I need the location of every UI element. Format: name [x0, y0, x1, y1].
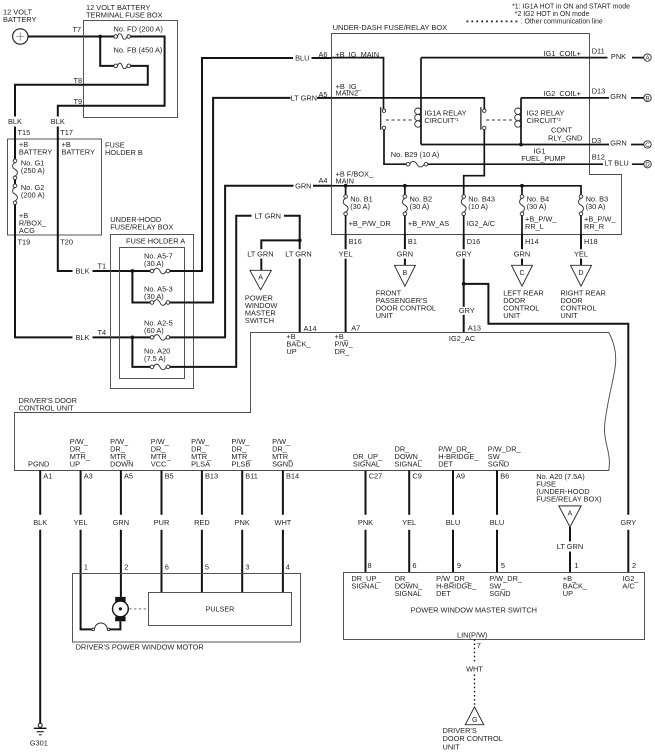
svg-text:A: A — [568, 511, 573, 518]
svg-text:C9: C9 — [412, 472, 421, 481]
fuse No.G2 (200A) — [13, 183, 45, 204]
wire branch to fuse FB — [100, 37, 114, 66]
svg-text:D11: D11 — [592, 46, 605, 55]
node LT GRN junction — [298, 239, 302, 243]
connector triangle C left rear door control unit — [503, 265, 544, 320]
wire IG2 switch output jog down to fuse B43 — [464, 130, 485, 195]
svg-text:LT GRN: LT GRN — [291, 94, 317, 103]
svg-text:PGND: PGND — [28, 459, 49, 468]
svg-text:+B_P/W_AS: +B_P/W_AS — [408, 219, 449, 228]
signal DR_UP_SIGNAL (pin8) — [351, 574, 381, 591]
note legend dotted other communication line — [467, 18, 603, 25]
svg-text:(7.5 A): (7.5 A) — [144, 354, 166, 363]
fuse holder A box — [120, 237, 186, 379]
node T1 junction — [131, 269, 135, 273]
node GRY junction — [462, 282, 466, 286]
fuse No.A2-5 (60A) — [144, 318, 173, 340]
wire fuse B2 to box bottom — [404, 216, 406, 234]
svg-text:T4: T4 — [98, 328, 107, 337]
svg-text:1: 1 — [84, 563, 88, 572]
svg-text:+B_IG_MAIN: +B_IG_MAIN — [335, 50, 379, 59]
wire B1 GRN down to triangle B — [404, 234, 406, 265]
svg-text:SIGNAL: SIGNAL — [395, 459, 422, 468]
svg-text:5: 5 — [501, 561, 505, 570]
node T4 junction — [131, 336, 135, 340]
fuse No.B3 (30A) — [579, 195, 609, 216]
svg-text:FUSE HOLDER A: FUSE HOLDER A — [126, 237, 185, 246]
fuse No.FB (450A) — [114, 45, 163, 68]
svg-text:8: 8 — [368, 561, 372, 570]
svg-text:7: 7 — [477, 641, 481, 650]
svg-text:YEL: YEL — [339, 250, 353, 259]
svg-text:D13: D13 — [592, 87, 606, 96]
svg-text:B16: B16 — [349, 237, 362, 246]
svg-text:HOLDER B: HOLDER B — [105, 148, 143, 157]
signal P/W_DR_MTR_PLSB — [231, 437, 252, 469]
svg-text:DOWN: DOWN — [110, 459, 133, 468]
svg-text:UNIT: UNIT — [376, 311, 394, 320]
svg-text:6: 6 — [412, 561, 416, 570]
node bus B4 — [520, 184, 524, 188]
svg-text:GRY: GRY — [620, 518, 636, 527]
motor M symbol — [113, 597, 129, 621]
svg-text:BATTERY: BATTERY — [3, 15, 36, 24]
svg-text:IG1_COIL+: IG1_COIL+ — [543, 49, 581, 58]
svg-text:B: B — [645, 95, 649, 102]
ground G301 — [30, 723, 48, 747]
wire B6 BLU down to switch pin5 — [496, 470, 498, 572]
wire bus stub to fuse B2 — [404, 186, 406, 195]
wire fuse A20 output up to LT GRN loop — [170, 216, 252, 367]
wire A9 BLU down to switch pin9 — [452, 470, 454, 572]
relay IG2 coil — [515, 108, 565, 127]
wire CONT RLY_GND row to D3 — [421, 144, 589, 146]
svg-text:GRY: GRY — [456, 250, 472, 259]
wire IG1A switch output down to fuse B29 — [384, 130, 406, 165]
svg-text:A3: A3 — [84, 472, 93, 481]
svg-text:GRN: GRN — [113, 518, 129, 527]
fuse No.B1 (30A) — [343, 195, 373, 216]
svg-text:SGND: SGND — [488, 459, 509, 468]
wire T19 down to T4 row — [15, 205, 73, 338]
svg-text:FUSE/RELAY BOX: FUSE/RELAY BOX — [110, 223, 173, 232]
svg-text:(30 A): (30 A) — [350, 202, 370, 211]
svg-text:BLK: BLK — [76, 333, 90, 342]
svg-text:A: A — [258, 275, 263, 282]
svg-text:RED: RED — [194, 518, 210, 527]
node T7 junction — [98, 35, 102, 39]
svg-text:(30 A): (30 A) — [527, 202, 547, 211]
under-dash fuse/relay box — [332, 23, 622, 235]
svg-text:DR_: DR_ — [335, 347, 351, 356]
svg-text:5: 5 — [205, 563, 209, 572]
svg-text:PNK: PNK — [611, 52, 626, 61]
wire GRY down to A13 — [463, 284, 465, 333]
fuse No.A5-7 (30A) — [144, 252, 173, 274]
svg-text:D: D — [645, 162, 650, 169]
svg-text:T7: T7 — [73, 25, 82, 34]
connector triangle B front passenger's door control unit — [376, 265, 436, 320]
svg-text:9: 9 — [457, 561, 461, 570]
wire motor bottom terminal — [110, 622, 121, 630]
wire A1 BLK down to ground — [39, 470, 41, 723]
wire A4 +B F/BOX_MAIN bus — [332, 186, 581, 195]
wire B11 PNK down to pulser pin3 — [241, 470, 243, 592]
svg-text:T17: T17 — [60, 128, 73, 137]
svg-text:A9: A9 — [456, 472, 465, 481]
wire H18 YEL down to triangle D — [580, 234, 582, 265]
svg-text:LT GRN: LT GRN — [255, 211, 281, 220]
svg-text:UNIT: UNIT — [443, 742, 461, 751]
svg-text:No. FD (200 A): No. FD (200 A) — [114, 25, 163, 34]
wire B5 PUR down to pulser pin6 — [161, 470, 163, 592]
signal P/W_DR_MTR_PLSA — [191, 437, 212, 469]
svg-text:YEL: YEL — [574, 250, 588, 259]
svg-text:B5: B5 — [165, 472, 174, 481]
svg-text:CIRCUIT*1: CIRCUIT*1 — [424, 116, 459, 125]
wire fuse B4 to box bottom — [521, 216, 523, 234]
wire between G1 and G2 — [14, 180, 16, 184]
svg-text:T20: T20 — [60, 237, 73, 246]
svg-text:B14: B14 — [286, 472, 299, 481]
svg-text:UNDER-DASH FUSE/RELAY BOX: UNDER-DASH FUSE/RELAY BOX — [333, 23, 447, 32]
svg-text:(30 A): (30 A) — [586, 202, 606, 211]
svg-text:1: 1 — [575, 561, 579, 570]
wire IG2 coil+ row to D13 — [521, 98, 589, 145]
wire D16 GRY down to junction — [463, 234, 465, 284]
svg-text:BLK: BLK — [76, 267, 90, 276]
12 volt battery terminal fuse box — [84, 3, 178, 118]
svg-text:GRN: GRN — [610, 92, 626, 101]
svg-text:2: 2 — [124, 563, 128, 572]
svg-text:B: B — [403, 270, 408, 277]
signal P/W_DR_SW_SGND (pin5) — [489, 574, 523, 598]
svg-text:T15: T15 — [18, 128, 31, 137]
wire junction to master switch triangle A — [261, 240, 299, 249]
svg-text:UP: UP — [563, 589, 573, 598]
node bus B2 — [403, 184, 407, 188]
wire B16 YEL down to A7 — [345, 234, 347, 333]
svg-text:T9: T9 — [74, 97, 83, 106]
fuse No.A20 (7.5A) — [144, 346, 170, 369]
wire IG1 coil+ row to D11 — [421, 58, 589, 145]
svg-text:PLSA: PLSA — [191, 459, 210, 468]
fuse No.B2 (30A) — [403, 195, 433, 216]
svg-text:POWER WINDOW MASTER SWITCH: POWER WINDOW MASTER SWITCH — [411, 606, 537, 615]
wire junction down to A14 — [299, 240, 301, 249]
signal P/W_DR_MTR_SGND — [272, 437, 293, 469]
svg-text:B1: B1 — [408, 237, 417, 246]
svg-text:SIGNAL: SIGNAL — [353, 459, 380, 468]
wire fuse A5-3 output up to LT GRN row / A5 — [170, 98, 291, 303]
svg-text:(30 A): (30 A) — [144, 292, 164, 301]
signal DR_DOWN_SIGNAL (C9) — [395, 444, 423, 468]
under-hood fuse/relay box — [110, 215, 193, 388]
svg-text:B6: B6 — [500, 472, 509, 481]
relay IG1A switch — [381, 107, 386, 130]
node coil ground junction — [519, 143, 523, 147]
svg-text:*2 IG2 HOT in ON mode: *2 IG2 HOT in ON mode — [515, 11, 590, 18]
svg-text:PLSB: PLSB — [231, 459, 250, 468]
relay IG2 switch — [481, 107, 486, 130]
wire fuse FD to T9 row exit — [58, 37, 165, 117]
svg-text:2: 2 — [632, 561, 636, 570]
power window master switch box — [344, 573, 645, 640]
svg-text:A5: A5 — [124, 472, 133, 481]
svg-text:SGND: SGND — [272, 459, 293, 468]
svg-text:A7: A7 — [351, 323, 360, 332]
svg-text:LT GRN: LT GRN — [285, 250, 311, 259]
svg-text:CONTROL UNIT: CONTROL UNIT — [19, 403, 75, 412]
svg-text:UNIT: UNIT — [560, 311, 578, 320]
motor dashed link to pulser — [129, 608, 148, 610]
svg-text:3: 3 — [245, 563, 249, 572]
connector triangle A power window master switch — [245, 270, 277, 325]
svg-text:BLK: BLK — [51, 117, 65, 126]
svg-text:GRN: GRN — [514, 250, 530, 259]
svg-text:B13: B13 — [205, 472, 218, 481]
relay IG1A coil — [415, 108, 467, 127]
svg-text:LT GRN: LT GRN — [557, 542, 583, 551]
svg-text:BLU: BLU — [446, 518, 460, 527]
relay IG1A dashed link — [386, 119, 415, 121]
signal +B BACK_UP (pin1) — [563, 574, 588, 598]
driver's power window motor box — [73, 574, 301, 652]
wire fuse B3 to box bottom — [580, 216, 582, 234]
signal DR_UP_SIGNAL (C27) — [353, 452, 383, 469]
svg-text:SIGNAL: SIGNAL — [395, 589, 422, 598]
signal IG2_A/C (pin2) — [622, 574, 639, 591]
svg-text:: Other communication line: : Other communication line — [521, 18, 603, 25]
svg-text:(30 A): (30 A) — [144, 259, 164, 268]
wire branch T4 junction down to fuse A20 — [132, 337, 150, 367]
signal P/W_DR_H-BRIDGE_DET (A9) — [438, 444, 479, 468]
fuse No.G1 (250A) — [13, 158, 45, 179]
svg-text:A5: A5 — [319, 90, 328, 99]
wire T17/T20 column straight through holder B down to T1 row — [58, 127, 73, 272]
svg-text:BATTERY: BATTERY — [62, 147, 95, 156]
wire fuse FB to T8 row exit — [15, 66, 148, 117]
wire GRY branch to master switch pin2 — [464, 284, 629, 572]
driver's door control unit box — [15, 333, 616, 471]
svg-text:VCC: VCC — [151, 459, 167, 468]
svg-text:D3: D3 — [592, 136, 601, 145]
svg-text:C: C — [519, 270, 524, 277]
svg-text:SIGNAL: SIGNAL — [351, 581, 378, 590]
wire D13 GRN to connector B — [589, 92, 651, 102]
svg-text:(250 A): (250 A) — [21, 166, 45, 175]
svg-text:PNK: PNK — [235, 518, 250, 527]
svg-text:*1: IG1A HOT in ON and START m: *1: IG1A HOT in ON and START mode — [512, 4, 630, 11]
svg-text:UP: UP — [70, 459, 80, 468]
signal P/W_DR_H-BRIDGE_DET (pin9) — [436, 574, 477, 598]
svg-text:PULSER: PULSER — [206, 605, 235, 614]
fuse No.B29 (10A) — [391, 150, 439, 167]
svg-text:BLK: BLK — [8, 117, 22, 126]
svg-text:UNIT: UNIT — [503, 311, 521, 320]
wire fuse B1 to box bottom — [345, 216, 347, 234]
connector triangle G driver's door control unit — [443, 707, 503, 751]
svg-text:SGND: SGND — [489, 589, 510, 598]
svg-text:CIRCUIT*2: CIRCUIT*2 — [527, 116, 562, 125]
svg-text:A13: A13 — [468, 324, 481, 333]
svg-text:UP: UP — [286, 347, 296, 356]
svg-text:+B_P/W_DR: +B_P/W_DR — [349, 219, 391, 228]
wire fuse B29 to B12 IG1 FUEL_PUMP — [428, 163, 589, 165]
svg-text:DET: DET — [436, 589, 451, 598]
svg-text:SWITCH: SWITCH — [245, 316, 274, 325]
connector triangle D right rear door control unit — [560, 265, 605, 320]
signal DR_DOWN_SIGNAL (pin6) — [395, 574, 423, 598]
battery 12V symbol — [3, 8, 36, 45]
svg-text:YEL: YEL — [74, 518, 88, 527]
pulser box — [149, 593, 292, 626]
svg-text:A/C: A/C — [622, 581, 635, 590]
svg-text:C27: C27 — [369, 472, 383, 481]
svg-text:DET: DET — [438, 459, 453, 468]
wire A3 YEL down to motor pin1 — [81, 470, 92, 629]
svg-text:H18: H18 — [584, 237, 598, 246]
svg-text:GRN: GRN — [295, 181, 311, 190]
svg-text:No. FB (450 A): No. FB (450 A) — [114, 45, 163, 54]
fuse No.A5-3 (30A) — [144, 284, 173, 305]
svg-text:MAIN2: MAIN2 — [336, 88, 359, 97]
svg-text:YEL: YEL — [402, 518, 416, 527]
wire T4 row into fuse holder A — [93, 336, 151, 338]
svg-text:IG2_AC: IG2_AC — [449, 334, 476, 343]
node bus B1 — [344, 184, 348, 188]
svg-text:IG2_COIL+: IG2_COIL+ — [543, 89, 581, 98]
svg-text:BLU: BLU — [490, 518, 504, 527]
signal P/W_DR_MTR_UP — [70, 437, 91, 469]
svg-text:WHT: WHT — [274, 518, 291, 527]
wire battery to T7 — [28, 36, 114, 38]
svg-text:B12: B12 — [592, 153, 605, 162]
svg-text:LT GRN: LT GRN — [247, 250, 273, 259]
svg-text:A14: A14 — [304, 324, 317, 333]
wire B14 WHT down to pulser pin4 — [282, 470, 284, 592]
signal P/W_DR_MTR_VCC — [151, 437, 172, 469]
svg-text:LIN(P/W): LIN(P/W) — [457, 631, 487, 640]
svg-text:GRY: GRY — [459, 306, 475, 315]
wire branch T1 junction down to fuse A5-3 — [132, 271, 150, 303]
svg-text:PUR: PUR — [154, 518, 170, 527]
svg-text:FUSE/RELAY BOX): FUSE/RELAY BOX) — [536, 495, 601, 504]
wire B12 LT BLU to connector D — [589, 158, 651, 168]
fuse No.FD (200A) — [114, 25, 163, 40]
wire B13 RED down to pulser pin5 — [201, 470, 203, 592]
svg-text:BATTERY: BATTERY — [19, 147, 52, 156]
connector triangle A fuse A20 under-hood — [559, 506, 581, 527]
wire C9 YEL down to switch pin6 — [408, 470, 410, 572]
svg-text:LT BLU: LT BLU — [604, 158, 628, 167]
svg-text:(200 A): (200 A) — [21, 191, 45, 200]
wire A5 GRN down to motor pin2 — [120, 470, 122, 597]
svg-text:ACG: ACG — [19, 226, 35, 235]
wire column1 into holder B — [14, 127, 16, 160]
wire D3 GRN to connector C — [589, 139, 651, 149]
wire fuse B43 to box bottom — [463, 216, 465, 234]
fuse holder B box — [8, 139, 143, 235]
svg-text:GRN: GRN — [610, 139, 626, 148]
svg-text:4: 4 — [286, 563, 290, 572]
svg-text:G301: G301 — [30, 738, 48, 747]
wire triangle A LT GRN to switch pin1 — [569, 527, 571, 572]
motor brush link arc — [92, 623, 110, 631]
svg-text:A4: A4 — [319, 176, 328, 185]
wire T1 row into fuse holder A — [93, 270, 151, 272]
svg-text:G: G — [472, 717, 477, 724]
svg-text:WHT: WHT — [466, 665, 483, 674]
signal P/W_DR_SW_SGND (B6) — [488, 444, 522, 468]
svg-text:BLK: BLK — [33, 518, 47, 527]
svg-text:T1: T1 — [98, 261, 107, 270]
svg-text:No. B29 (10 A): No. B29 (10 A) — [391, 150, 439, 159]
svg-text:A1: A1 — [43, 472, 52, 481]
fuse No.B43 (10A) — [461, 195, 495, 216]
svg-text:TERMINAL FUSE BOX: TERMINAL FUSE BOX — [86, 10, 163, 19]
svg-text:6: 6 — [165, 563, 169, 572]
svg-text:T19: T19 — [18, 237, 31, 246]
wire C27 PNK down to switch pin8 — [365, 470, 367, 572]
signal P/W_DR_MTR_DOWN — [110, 437, 133, 469]
wire fuse A5-7 output up to BLU row / A6 — [170, 58, 293, 271]
svg-text:B11: B11 — [245, 472, 258, 481]
wire A6 +B_IG_MAIN to IG1A relay switch — [332, 58, 384, 109]
svg-text:RR_L: RR_L — [525, 222, 544, 231]
svg-text:T8: T8 — [74, 76, 83, 85]
svg-text:D: D — [578, 270, 583, 277]
svg-text:(10 A): (10 A) — [468, 202, 488, 211]
wire bus stub to fuse B1 — [345, 186, 347, 195]
svg-text:D16: D16 — [467, 237, 481, 246]
wire H14 GRN down to triangle C — [521, 234, 523, 265]
relay IG2 dashed link — [486, 119, 514, 121]
svg-text:(30 A): (30 A) — [410, 202, 430, 211]
svg-text:RR_R: RR_R — [584, 222, 604, 231]
svg-text:IG2_A/C: IG2_A/C — [467, 219, 496, 228]
svg-text:RLY_GND: RLY_GND — [548, 133, 582, 142]
wire fuse A2-5 output up to GRN row / A4 — [170, 186, 294, 338]
svg-text:PNK: PNK — [358, 518, 373, 527]
fuse A20 feed label — [536, 472, 601, 504]
svg-text:BLU: BLU — [295, 54, 309, 63]
svg-text:(60 A): (60 A) — [144, 326, 164, 335]
wire bus stub to fuse B4 — [521, 186, 523, 195]
svg-text:A6: A6 — [319, 50, 328, 59]
svg-text:H14: H14 — [525, 237, 539, 246]
svg-text:DRIVER'S POWER WINDOW MOTOR: DRIVER'S POWER WINDOW MOTOR — [76, 642, 204, 651]
wire dotted LIN to triangle G — [474, 639, 476, 706]
svg-text:FUEL_PUMP: FUEL_PUMP — [521, 154, 565, 163]
wire D11 PNK to connector A — [589, 52, 651, 62]
wire A5 +B_IG_MAIN2 to IG2 relay switch — [332, 98, 485, 109]
svg-text:GRN: GRN — [397, 250, 413, 259]
svg-text:C: C — [645, 142, 650, 149]
fuse No.B4 (30A) — [520, 195, 550, 216]
